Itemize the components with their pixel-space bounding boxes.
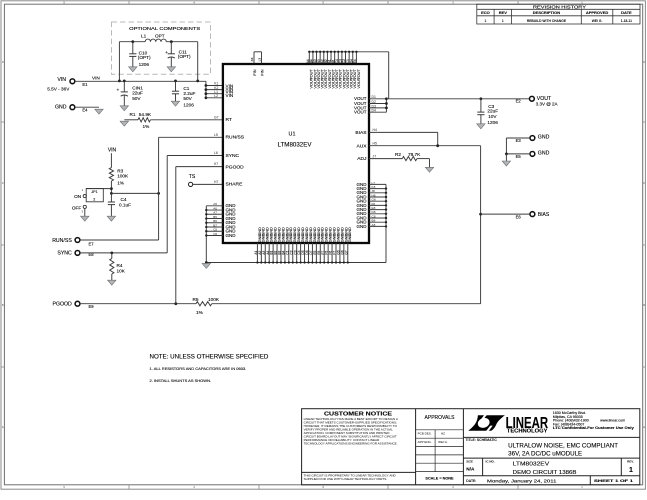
- capacitor C11: [170, 42, 172, 54]
- wire bottom GND stub 8: [284, 243, 286, 263]
- svg-text:1206: 1206: [183, 102, 194, 107]
- svg-text:ECO: ECO: [481, 10, 490, 15]
- svg-text:50V: 50V: [183, 96, 192, 101]
- revision history table: [477, 4, 640, 24]
- wire top VOUT pin stub 10: [341, 52, 343, 63]
- svg-text:100K: 100K: [117, 174, 129, 179]
- wire bottom GND stub 6: [276, 243, 278, 263]
- svg-text:LTM8032EV: LTM8032EV: [513, 462, 550, 468]
- ground under C3: [477, 124, 485, 129]
- svg-text:LTC Confidential-For Customer: LTC Confidential-For Customer Use Only: [553, 426, 634, 430]
- wire bottom GND stub 13: [304, 243, 306, 263]
- logo Linear Technology: [468, 415, 505, 431]
- proprietary note: [304, 473, 397, 481]
- svg-text:VIN: VIN: [226, 93, 234, 98]
- wire bottom GND stub 19: [327, 243, 329, 263]
- wire VIN to R3: [110, 153, 112, 167]
- svg-text:H4: H4: [373, 128, 377, 132]
- svg-text:R4: R4: [117, 263, 123, 268]
- wire top VOUT pin stub 4: [319, 52, 321, 63]
- wire right branch of L1: [197, 42, 199, 81]
- svg-text:R1: R1: [130, 112, 136, 117]
- svg-text:D4: D4: [372, 109, 376, 113]
- wire top VOUT pin stub 13: [352, 52, 354, 63]
- svg-text:E3: E3: [516, 138, 522, 143]
- wire top VOUT pin stub 7: [330, 52, 332, 63]
- wire RT: [124, 119, 138, 121]
- wire right GND stub 4: [369, 196, 386, 198]
- svg-text:E5: E5: [516, 154, 522, 159]
- wire left GND stub 3: [206, 213, 223, 215]
- svg-text:NOTE: UNLESS OTHERWISE SPECIFI: NOTE: UNLESS OTHERWISE SPECIFIED: [150, 353, 269, 360]
- wire E8 to SYNC pin: [80, 252, 167, 254]
- ground at R1: [120, 121, 128, 126]
- svg-text:1-18-11: 1-18-11: [621, 19, 632, 23]
- svg-text:1%: 1%: [196, 310, 203, 315]
- wire VOUT pin stub 1: [369, 98, 386, 100]
- wire bottom GND stub 1: [256, 243, 258, 263]
- wire RUN/SS node to riser: [111, 192, 158, 194]
- ground under CIN1: [120, 106, 128, 111]
- svg-text:SUPPLIED FOR USE WITH LINEAR T: SUPPLIED FOR USE WITH LINEAR TECHNOLOGY …: [304, 477, 388, 481]
- svg-text:E7: E7: [89, 241, 95, 246]
- svg-text:J7: J7: [373, 154, 377, 158]
- svg-text:www.linear.com: www.linear.com: [600, 419, 625, 423]
- svg-text:VOUT: VOUT: [356, 77, 361, 88]
- wire right GND stub 11: [369, 225, 386, 227]
- wire VIN pin stub 1: [206, 85, 223, 87]
- wire TS to SHARE pin: [193, 183, 223, 185]
- wire VIN pin stub 4: [206, 97, 223, 99]
- svg-text:78.7K: 78.7K: [408, 152, 421, 157]
- svg-text:PGOOD: PGOOD: [52, 302, 72, 308]
- wire VIN pin stub 3: [206, 93, 223, 95]
- approvals rows: [418, 432, 448, 444]
- svg-text:2: 2: [93, 198, 95, 202]
- svg-text:PCB DES.: PCB DES.: [418, 432, 432, 436]
- svg-text:Monday, January 24, 2011: Monday, January 24, 2011: [487, 478, 557, 483]
- svg-text:JP1: JP1: [91, 190, 97, 194]
- svg-text:RT: RT: [226, 117, 232, 123]
- svg-text:10V: 10V: [488, 114, 497, 119]
- resistor R2: [402, 157, 417, 161]
- svg-text:SHEET 1 OF 1: SHEET 1 OF 1: [594, 479, 633, 483]
- wire top VOUT pin stub 3: [316, 52, 318, 63]
- svg-text:DESCRIPTION: DESCRIPTION: [533, 10, 560, 15]
- approvals table: [416, 430, 464, 472]
- wire VOUT bus: [385, 99, 387, 112]
- wire bottom GND stub 5: [272, 243, 274, 263]
- wire bottom GND stub 9: [288, 243, 290, 263]
- address block: [553, 411, 634, 430]
- wire bottom GND stub 3: [264, 243, 266, 263]
- node L1-C11: [170, 40, 173, 43]
- capacitor C4: [110, 193, 112, 202]
- svg-text:1. ALL RESISTORS AND CAPACITO: 1. ALL RESISTORS AND CAPACITORS ARE IN 0…: [150, 366, 247, 371]
- svg-text:D2: D2: [372, 100, 376, 104]
- wire right GND stub 3: [369, 192, 386, 194]
- svg-text:VIN: VIN: [92, 75, 100, 80]
- svg-text:+: +: [165, 50, 168, 55]
- wire R2 to ground: [417, 158, 430, 160]
- wire VIN rail: [75, 80, 206, 82]
- svg-text:ADJ: ADJ: [357, 156, 367, 162]
- ground under C4: [107, 216, 115, 221]
- wire left GND stub 7: [206, 230, 223, 232]
- ground at rail: [202, 263, 210, 268]
- svg-text:L6: L6: [214, 151, 218, 155]
- svg-text:L5: L5: [214, 133, 218, 137]
- wire right GND stub 8: [369, 213, 386, 215]
- svg-text:GND: GND: [226, 233, 237, 238]
- svg-text:E1: E1: [82, 82, 88, 87]
- terminal E3 GND: [530, 136, 535, 141]
- wire right GND stub 5: [369, 200, 386, 202]
- svg-text:TS: TS: [189, 174, 196, 180]
- resistor R4: [111, 253, 113, 259]
- svg-text:R5: R5: [193, 297, 199, 302]
- svg-text:H5: H5: [373, 142, 377, 146]
- svg-text:22uF: 22uF: [487, 109, 498, 114]
- inductor L1: [145, 39, 166, 42]
- wire bottom GND stub 17: [319, 243, 321, 263]
- svg-text:APPROVALS: APPROVALS: [425, 415, 456, 421]
- terminal E6 BIAS: [530, 212, 535, 217]
- svg-text:D: D: [2, 61, 4, 64]
- wire R3 to node: [110, 181, 112, 193]
- wire FIN tie: [253, 52, 255, 63]
- svg-text:REV: REV: [499, 10, 508, 15]
- svg-text:OFF: OFF: [72, 206, 82, 211]
- svg-text:R2: R2: [395, 152, 401, 157]
- op-amp U1 LTM8032EV module body: [223, 64, 369, 243]
- wire bottom GND stub 4: [268, 243, 270, 263]
- wire top VOUT pin stub 9: [337, 52, 339, 63]
- svg-text:C: C: [643, 182, 645, 185]
- wire E5 to ground: [506, 153, 530, 155]
- capacitor C1: [175, 81, 177, 91]
- ground at R2: [425, 167, 433, 172]
- wire left GND stub 2: [206, 209, 223, 211]
- wire VIN bus to pins: [205, 81, 207, 98]
- svg-text:RUN/SS: RUN/SS: [226, 135, 245, 141]
- title block frame: [302, 409, 640, 485]
- svg-text:10K: 10K: [117, 268, 126, 273]
- svg-text:BIAS: BIAS: [538, 212, 550, 218]
- svg-text:D1: D1: [372, 95, 376, 99]
- ground under C10: [129, 67, 137, 72]
- svg-text:GND: GND: [538, 135, 550, 141]
- wire bottom GND stub 12: [300, 243, 302, 263]
- svg-text:WEI G.: WEI G.: [438, 440, 448, 444]
- svg-text:1206: 1206: [139, 62, 150, 67]
- svg-text:0.1uF: 0.1uF: [119, 202, 131, 207]
- wire left GND stub 4: [206, 218, 223, 220]
- wire node to JP1: [86, 188, 111, 190]
- svg-text:GND: GND: [347, 234, 352, 243]
- svg-text:C6: C6: [213, 232, 217, 236]
- ground under C1: [171, 101, 179, 106]
- svg-text:G7: G7: [344, 250, 348, 254]
- svg-text:TECHNOLOGY APPLICATIONS ENGINE: TECHNOLOGY APPLICATIONS ENGINEERING FOR …: [304, 441, 398, 445]
- wire bottom GND stub 7: [280, 243, 282, 263]
- svg-text:SYNC: SYNC: [57, 251, 72, 257]
- svg-text:U1: U1: [289, 131, 296, 137]
- svg-text:DEMO CIRCUIT 1386B: DEMO CIRCUIT 1386B: [513, 470, 577, 476]
- svg-text:TECHNOLOGY: TECHNOLOGY: [507, 429, 548, 435]
- svg-text:E2: E2: [516, 99, 522, 104]
- wire BIAS riser: [480, 146, 482, 304]
- svg-text:1: 1: [629, 467, 633, 474]
- ground at E3/E5: [502, 161, 510, 166]
- capacitor C3: [480, 99, 482, 112]
- wire VIN pin stub 2: [206, 89, 223, 91]
- wire E4 to ground: [75, 106, 99, 108]
- wire left GND stub 1: [206, 205, 223, 207]
- wire bottom GND stub 23: [343, 243, 345, 263]
- svg-text:BIAS: BIAS: [355, 130, 367, 136]
- svg-text:3.3V @ 2A: 3.3V @ 2A: [536, 102, 558, 107]
- node L1-C10: [131, 40, 134, 43]
- svg-text:E4: E4: [82, 108, 88, 113]
- wire left GND stub 8: [206, 235, 223, 237]
- wire bottom GND stub 10: [292, 243, 294, 263]
- wire top VOUT pin stub 5: [323, 52, 325, 63]
- wire right GND stub 6: [369, 204, 386, 206]
- wire ADJ pin: [369, 158, 402, 160]
- title block right dividers: [463, 437, 639, 484]
- ground under C11: [167, 67, 175, 72]
- resistor R3: [109, 168, 113, 181]
- svg-text:PGOOD: PGOOD: [226, 164, 245, 170]
- svg-text:GND: GND: [55, 105, 67, 111]
- svg-text:IC NO.: IC NO.: [486, 460, 495, 464]
- wire L1 top: [119, 41, 145, 43]
- customer notice paragraph: [304, 417, 399, 446]
- svg-text:A8: A8: [372, 223, 376, 227]
- resistor R1: [138, 118, 150, 122]
- wire bottom GND stub 21: [335, 243, 337, 263]
- wire top VOUT pin stub 11: [345, 52, 347, 63]
- svg-text:DATE: DATE: [621, 10, 632, 15]
- svg-text:RUN/SS: RUN/SS: [52, 238, 72, 244]
- svg-text:50V: 50V: [132, 96, 141, 101]
- wire bottom GND stub 22: [339, 243, 341, 263]
- wire right GND stub 2: [369, 188, 386, 190]
- svg-text:G7: G7: [214, 115, 219, 119]
- wire left GND stub 6: [206, 226, 223, 228]
- wire left GND bus: [205, 206, 207, 263]
- wire top VOUT pin stub 8: [334, 52, 336, 63]
- svg-text:ULTRALOW NOISE, EMC COMPLIANT: ULTRALOW NOISE, EMC COMPLIANT: [508, 443, 618, 450]
- svg-text:K3: K3: [250, 57, 254, 61]
- svg-text:L2: L2: [214, 94, 218, 98]
- svg-text:H7: H7: [214, 180, 218, 184]
- wire E3 to ground: [506, 137, 530, 139]
- svg-text:C: C: [2, 182, 4, 185]
- wire top VOUT pin stub 2: [312, 52, 314, 63]
- wire bottom GND stub 2: [260, 243, 262, 263]
- svg-text:1%: 1%: [143, 124, 150, 129]
- svg-text:FIN: FIN: [261, 69, 265, 75]
- wire left GND stub 5: [206, 222, 223, 224]
- wire right GND bus: [385, 184, 387, 262]
- svg-text:GND: GND: [538, 151, 550, 157]
- svg-text:E9: E9: [89, 304, 95, 309]
- terminal E5 GND: [530, 152, 535, 157]
- ground under JP1: [81, 216, 89, 221]
- svg-text:L1: L1: [141, 34, 147, 39]
- wire VOUT pin stub 3: [369, 107, 386, 109]
- svg-text:54.9K: 54.9K: [139, 112, 152, 117]
- wire left branch of L1: [118, 42, 120, 81]
- svg-text:5.5V - 36V: 5.5V - 36V: [47, 87, 70, 92]
- wire top VOUT pin stub 12: [348, 52, 350, 63]
- svg-text:APP ENG.: APP ENG.: [418, 440, 432, 444]
- jumper JP1: [83, 195, 86, 198]
- svg-text:VIN: VIN: [108, 148, 117, 154]
- svg-text:TITLE: SCHEMATIC: TITLE: SCHEMATIC: [465, 438, 497, 442]
- wire bottom GND stub 20: [331, 243, 333, 263]
- wire JP1 to ground: [84, 209, 86, 217]
- svg-text:OPT: OPT: [155, 34, 165, 39]
- svg-text:OPTIONAL COMPONENTS: OPTIONAL COMPONENTS: [129, 26, 200, 31]
- svg-text:(OPT): (OPT): [178, 54, 191, 59]
- svg-text:REBUILD WITH CHANGE: REBUILD WITH CHANGE: [527, 19, 567, 23]
- svg-text:L3: L3: [257, 58, 261, 62]
- svg-text:LTM8032EV: LTM8032EV: [278, 141, 313, 148]
- svg-text:DATE:: DATE:: [466, 479, 476, 483]
- svg-text:1%: 1%: [117, 180, 124, 185]
- svg-text:VOUT: VOUT: [354, 110, 367, 115]
- wire R5 to BIAS riser: [212, 303, 481, 305]
- svg-text:FIN: FIN: [253, 69, 257, 75]
- wire right GND stub 10: [369, 221, 386, 223]
- wire bottom GND stub 11: [296, 243, 298, 263]
- capacitor C10: [132, 42, 134, 54]
- svg-text:N/A: N/A: [466, 467, 475, 472]
- svg-text:D: D: [643, 61, 645, 64]
- svg-text:REV.: REV.: [627, 460, 634, 464]
- svg-text:+: +: [117, 87, 120, 92]
- svg-text:REVISION HISTORY: REVISION HISTORY: [533, 5, 586, 10]
- svg-text:C4: C4: [121, 197, 127, 202]
- svg-text:1: 1: [485, 19, 487, 23]
- svg-text:K7: K7: [214, 162, 218, 166]
- svg-text:SCALE = NONE: SCALE = NONE: [425, 477, 454, 481]
- svg-text:36V, 2A DC/DC uMODULE: 36V, 2A DC/DC uMODULE: [508, 451, 582, 458]
- svg-text:GND: GND: [357, 224, 368, 229]
- wire bottom GND stub 14: [307, 243, 309, 263]
- ground under R4: [108, 280, 116, 285]
- wire top VOUT pin stub 6: [326, 52, 328, 63]
- optional components dashed box: [112, 22, 211, 74]
- svg-text:E4: E4: [353, 59, 357, 63]
- svg-text:SYNC: SYNC: [226, 153, 240, 159]
- wire bottom GND stub 18: [323, 243, 325, 263]
- wire E7 to RUN/SS pin: [80, 239, 159, 241]
- svg-text:SIZE: SIZE: [466, 460, 473, 464]
- ground at E4: [95, 109, 103, 114]
- wire bottom GND stub 15: [311, 243, 313, 263]
- capacitor CIN1: [123, 81, 125, 92]
- svg-text:VIN: VIN: [57, 77, 66, 83]
- svg-text:ON: ON: [74, 194, 81, 199]
- wire VOUT pin stub 2: [369, 103, 386, 105]
- svg-text:100K: 100K: [208, 297, 220, 302]
- wire right GND stub 1: [369, 183, 386, 185]
- svg-text:SHARE: SHARE: [226, 182, 244, 188]
- svg-text:APPROVED: APPROVED: [586, 10, 609, 15]
- wire right GND stub 9: [369, 217, 386, 219]
- terminal E2 VOUT: [530, 96, 535, 101]
- wire VOUT pin stub 4: [369, 111, 386, 113]
- wire right GND stub 7: [369, 209, 386, 211]
- svg-text:E6: E6: [516, 214, 522, 219]
- wire bottom GND stub 24: [347, 243, 349, 263]
- wire top VOUT pin stub 14: [355, 52, 357, 63]
- svg-text:(OPT): (OPT): [138, 55, 151, 60]
- wire bottom GND stub 16: [315, 243, 317, 263]
- resistor R5: [196, 302, 212, 306]
- svg-text:AUX: AUX: [356, 143, 367, 149]
- wire AUX pin: [369, 145, 481, 147]
- svg-text:1206: 1206: [487, 120, 498, 125]
- wire top VOUT bus: [309, 51, 388, 53]
- wire BIAS pin: [369, 131, 438, 133]
- wire to E6: [481, 213, 530, 215]
- svg-text:HZ: HZ: [441, 432, 445, 436]
- svg-text:1: 1: [502, 19, 504, 23]
- wire E9 to PGOOD pin and R5: [80, 303, 196, 305]
- wire top VOUT pin stub 1: [308, 52, 310, 63]
- svg-text:2. INSTALL SHUNTS AS SHOWN.: 2. INSTALL SHUNTS AS SHOWN.: [150, 378, 212, 383]
- svg-text:WEI G.: WEI G.: [592, 19, 603, 23]
- wire VOUT to E2: [386, 98, 529, 100]
- wire bottom GND rail: [206, 262, 386, 264]
